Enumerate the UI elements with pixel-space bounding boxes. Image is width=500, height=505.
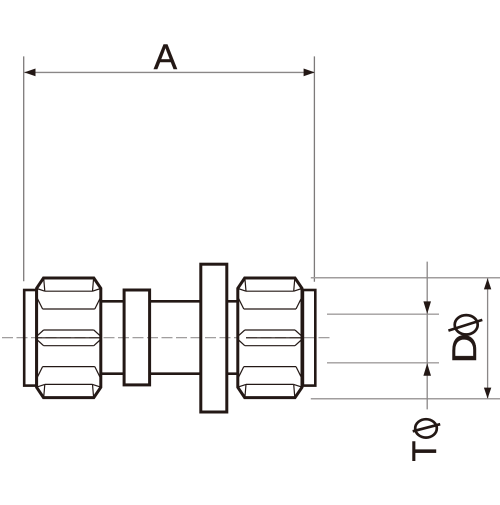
D dia label phi bbox=[448, 315, 482, 334]
T dia extension line top bbox=[327, 313, 439, 315]
dimension A right arrowhead bbox=[304, 69, 315, 77]
D dia dimension line bbox=[487, 278, 489, 398]
dimension A extension line left bbox=[23, 56, 25, 281]
svg-text:A: A bbox=[154, 38, 178, 77]
svg-text:D: D bbox=[446, 333, 484, 363]
T dia top arrowhead (pointing down) bbox=[423, 301, 431, 314]
D dia top arrowhead bbox=[484, 278, 491, 289]
T dia extension line bottom bbox=[327, 362, 439, 364]
D dia extension line bottom bbox=[311, 398, 500, 400]
dimension A extension line right bbox=[313, 56, 315, 281]
T dia bottom arrowhead (pointing up) bbox=[423, 363, 431, 376]
right nut bbox=[238, 278, 302, 398]
dimension A left arrowhead bbox=[24, 69, 35, 77]
D dia extension line top bbox=[311, 277, 500, 279]
center body hex section bbox=[124, 290, 150, 385]
D dia bottom arrowhead bbox=[484, 388, 491, 399]
flange bbox=[201, 264, 227, 412]
T dia dimension line bbox=[426, 262, 428, 410]
right tube cap bbox=[303, 290, 315, 386]
neck between flange and right nut bbox=[227, 300, 238, 303]
dimension A line bbox=[24, 71, 315, 73]
neck between body and flange bbox=[150, 300, 201, 303]
left tube cap bbox=[24, 290, 36, 386]
centerline right portion bbox=[246, 337, 330, 339]
svg-text:T: T bbox=[406, 441, 444, 462]
centerline bbox=[2, 337, 237, 339]
T dia label phi bbox=[413, 419, 441, 437]
left nut bbox=[37, 278, 101, 398]
neck between left nut and body bbox=[101, 300, 124, 303]
